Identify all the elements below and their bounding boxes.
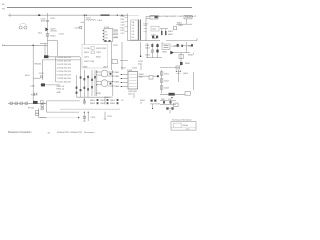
svg-text:SW101: SW101 bbox=[34, 64, 42, 66]
svg-text:R121: R121 bbox=[114, 30, 118, 32]
svg-text:C201: C201 bbox=[96, 52, 102, 54]
svg-text:10k: 10k bbox=[139, 77, 142, 79]
svg-text:R104: R104 bbox=[50, 36, 56, 38]
svg-text:R201: R201 bbox=[84, 52, 90, 54]
svg-text:T102: T102 bbox=[113, 45, 119, 47]
svg-text:5 C624 470 10V: 5 C624 470 10V bbox=[57, 71, 72, 73]
svg-text:3 C622 220 16V: 3 C622 220 16V bbox=[57, 64, 72, 66]
svg-text:R802: R802 bbox=[90, 103, 96, 105]
svg-text:C802: C802 bbox=[100, 103, 106, 105]
svg-text:400V: 400V bbox=[41, 20, 46, 22]
svg-text:4 C623 220 16V: 4 C623 220 16V bbox=[57, 67, 72, 69]
svg-text:Technical information: Technical information bbox=[172, 119, 192, 122]
svg-text:R616 1k: R616 1k bbox=[57, 89, 64, 91]
svg-text:D802: D802 bbox=[110, 103, 116, 105]
svg-text:CN101: CN101 bbox=[185, 17, 192, 19]
svg-text:2 C621 100 25V: 2 C621 100 25V bbox=[57, 60, 72, 62]
svg-text:7 C626 100 50V: 7 C626 100 50V bbox=[57, 78, 72, 80]
svg-text:C116: C116 bbox=[121, 25, 125, 27]
svg-text:D801: D801 bbox=[110, 100, 116, 102]
svg-text:RY101: RY101 bbox=[28, 107, 35, 109]
svg-text:C104: C104 bbox=[59, 33, 65, 35]
svg-text:SGN-HC295 / SGN-HC297: SGN-HC295 / SGN-HC297 bbox=[57, 132, 83, 134]
svg-text:100u: 100u bbox=[128, 93, 132, 95]
svg-text:C102: C102 bbox=[97, 20, 103, 22]
svg-text:IC602: IC602 bbox=[172, 46, 178, 48]
svg-text:R110: R110 bbox=[121, 16, 125, 18]
svg-text:1k: 1k bbox=[140, 103, 142, 105]
svg-text:C801: C801 bbox=[100, 100, 106, 102]
svg-text:R111: R111 bbox=[121, 19, 125, 21]
svg-text:6 C625 470 10V: 6 C625 470 10V bbox=[57, 74, 72, 76]
svg-text:R801: R801 bbox=[90, 100, 96, 102]
svg-text:C110: C110 bbox=[152, 29, 156, 31]
svg-text:IC101: IC101 bbox=[104, 27, 110, 29]
svg-text:Panasonic Corporation: Panasonic Corporation bbox=[8, 131, 32, 134]
svg-text:6 F: 6 F bbox=[132, 37, 134, 39]
svg-text:C103: C103 bbox=[75, 28, 81, 30]
svg-text:GND: GND bbox=[57, 92, 62, 94]
svg-text:8 C627 100 50V: 8 C627 100 50V bbox=[57, 81, 72, 83]
svg-text:1 C620 100 25V: 1 C620 100 25V bbox=[57, 57, 72, 59]
svg-text:65kHz: 65kHz bbox=[183, 125, 189, 127]
svg-text:C115: C115 bbox=[121, 22, 125, 24]
svg-text:R113: R113 bbox=[121, 30, 125, 32]
svg-text:C740 C741: C740 C741 bbox=[104, 97, 113, 99]
svg-text:2SC50: 2SC50 bbox=[50, 31, 57, 33]
svg-text:D202 C203: D202 C203 bbox=[84, 61, 95, 63]
svg-text:Schematics: Schematics bbox=[84, 131, 95, 134]
svg-text:R112: R112 bbox=[121, 27, 125, 29]
svg-text:C117: C117 bbox=[121, 33, 125, 35]
svg-text:rev.2: rev.2 bbox=[186, 128, 190, 130]
svg-text:D103: D103 bbox=[144, 24, 148, 26]
svg-text:R122: R122 bbox=[114, 33, 118, 35]
svg-text:C121: C121 bbox=[114, 36, 118, 38]
svg-text:PC101: PC101 bbox=[84, 48, 91, 50]
svg-text:GND: GND bbox=[83, 67, 88, 69]
svg-text:IC601: IC601 bbox=[127, 70, 133, 72]
